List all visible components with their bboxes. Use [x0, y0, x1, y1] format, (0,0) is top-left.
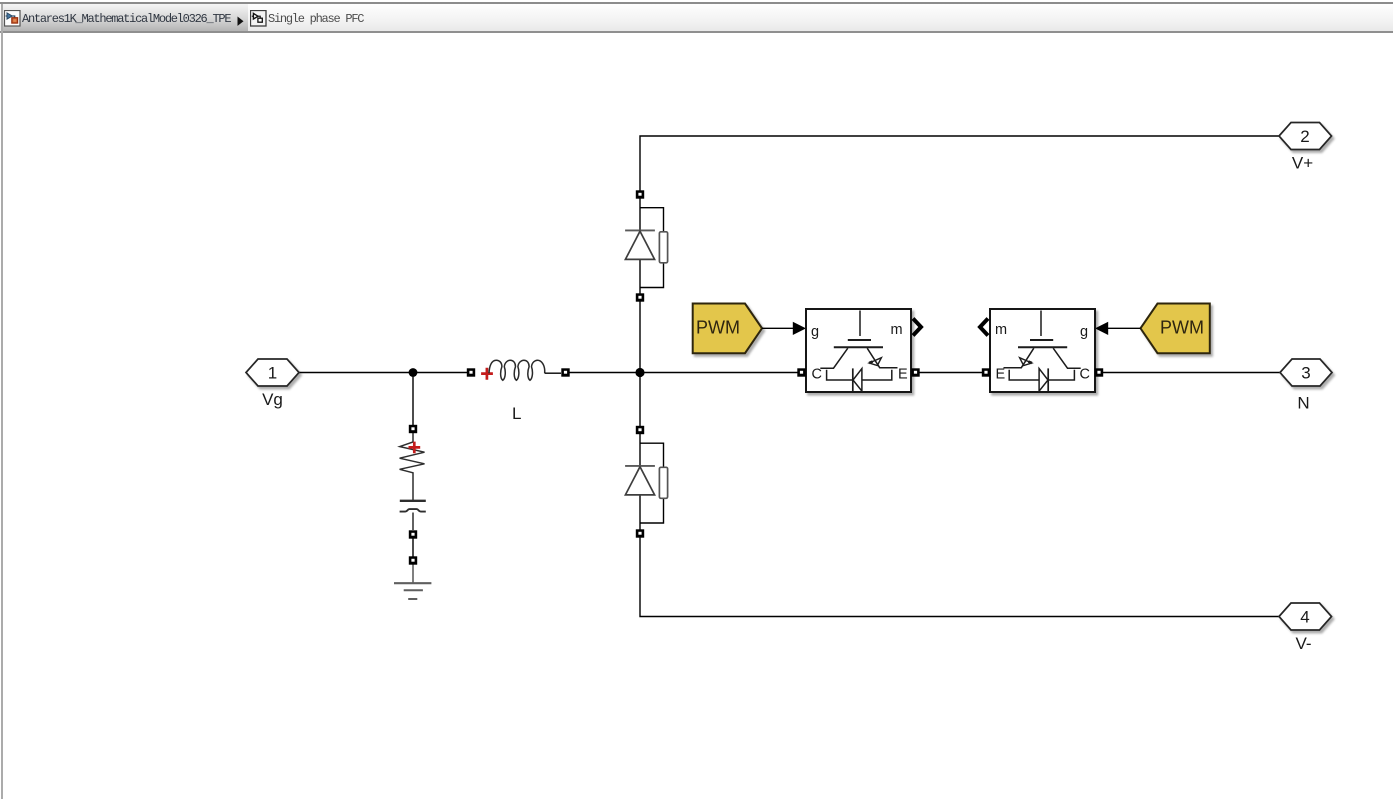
svg-text:1: 1	[268, 364, 277, 383]
wire: top rail to port 2	[640, 136, 1279, 191]
wire: right IGBT C to port 3	[1102, 372, 1280, 374]
port marker: resistor R top terminal	[409, 425, 417, 433]
port 2 V+	[1279, 123, 1332, 150]
gate input arrowhead right	[1095, 322, 1108, 335]
svg-text:C: C	[812, 367, 822, 383]
port 4 V-	[1279, 603, 1332, 630]
svg-text:PWM: PWM	[1160, 318, 1204, 338]
resistor R (shunt)	[400, 433, 425, 500]
wire PWM to gate (right)	[1108, 327, 1141, 329]
port marker: inductor L right terminal	[561, 368, 569, 376]
inductor L coil	[489, 360, 545, 380]
port 3 N	[1280, 359, 1332, 386]
PWM tag left	[693, 304, 762, 354]
ground symbol	[394, 582, 431, 584]
diode D2 with snubber (bottom)	[625, 433, 668, 530]
svg-text:4: 4	[1300, 608, 1309, 627]
svg-text:3: 3	[1301, 364, 1310, 383]
IGBT block U2	[990, 309, 1095, 392]
port marker: diode D1 cathode	[636, 190, 644, 198]
IGBT block U1	[806, 309, 911, 392]
svg-text:E: E	[898, 367, 908, 383]
canvas left edge line	[1, 4, 3, 799]
wire: bottom rail to port 4	[640, 538, 1279, 617]
wire PWM to gate (left)	[762, 327, 793, 329]
wire: inductor to marker	[545, 372, 561, 374]
wire: center junction to left IGBT C	[640, 372, 798, 374]
svg-text:PWM: PWM	[696, 318, 740, 338]
wire: capacitor plate to terminal	[412, 513, 414, 531]
model icon 1	[4, 10, 21, 27]
wire: capacitor to ground markers	[412, 539, 414, 557]
wire: RC shunt branch down from junction	[412, 373, 414, 426]
svg-text:Vg: Vg	[262, 390, 283, 409]
svg-text:m: m	[995, 322, 1007, 338]
capacitor C (shunt)	[400, 500, 426, 502]
U1 IGBT symbol	[820, 311, 897, 392]
junction node at Vg tap	[409, 368, 418, 377]
polarity + mark on inductor	[481, 368, 493, 380]
svg-text:2: 2	[1300, 127, 1309, 146]
svg-text:g: g	[1080, 324, 1088, 340]
port marker: diode D2 anode	[636, 529, 644, 537]
port marker: U2 pin C	[1095, 368, 1103, 376]
subsystem icon 2	[250, 10, 267, 27]
port marker: diode D2 cathode	[636, 426, 644, 434]
U1 m output chevron	[913, 319, 921, 336]
svg-text:C: C	[1080, 367, 1090, 383]
port marker: ground terminal	[409, 556, 417, 564]
wire: inductor right to center junction	[569, 372, 640, 374]
port marker: inductor L left terminal	[467, 368, 475, 376]
breadcrumb bar	[0, 2, 1393, 33]
junction node at center rail	[635, 368, 644, 377]
diode D1 with snubber (top)	[625, 198, 668, 295]
port marker: diode D1 anode	[636, 293, 644, 301]
port marker: capacitor bottom terminal	[409, 530, 417, 538]
U2 IGBT symbol (mirrored)	[1004, 311, 1081, 392]
svg-text:g: g	[811, 324, 819, 340]
svg-text:N: N	[1297, 394, 1309, 413]
wire: port1 to junction to inductor	[299, 372, 467, 374]
svg-text:V-: V-	[1295, 634, 1311, 653]
svg-text:L: L	[512, 404, 521, 423]
svg-text:V+: V+	[1292, 154, 1313, 173]
wire: between IGBT blocks	[919, 372, 983, 374]
svg-text:E: E	[996, 367, 1006, 383]
port 1 Vg	[246, 359, 299, 386]
svg-text:m: m	[891, 322, 903, 338]
U2 m output chevron	[980, 319, 988, 336]
port marker: U1 pin E	[911, 368, 919, 376]
PWM tag right	[1141, 304, 1210, 354]
polarity + mark on resistor	[409, 442, 421, 454]
wire: vertical rail between diodes	[639, 301, 641, 426]
port marker: U2 pin E	[982, 368, 990, 376]
breadcrumb item 1 highlighted	[3, 4, 248, 31]
gate input arrowhead left	[793, 322, 806, 335]
port marker: U1 pin C	[797, 368, 805, 376]
breadcrumb separator	[236, 16, 246, 28]
